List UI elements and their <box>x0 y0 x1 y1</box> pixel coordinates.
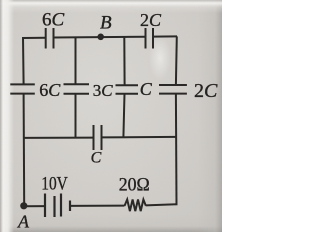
svg-text:6C: 6C <box>42 10 65 31</box>
wire top rail left segment <box>23 37 46 39</box>
node B <box>97 34 104 41</box>
capacitor 6C (left edge, vertical branch) <box>10 84 35 93</box>
wire left edge lower <box>23 94 26 207</box>
capacitor 3C <box>64 84 90 94</box>
svg-text:3C: 3C <box>93 81 114 100</box>
wire middle rail right <box>102 136 177 139</box>
svg-text:20Ω: 20Ω <box>119 175 150 196</box>
wire branch 2 lower <box>75 94 77 138</box>
svg-text:2C: 2C <box>140 10 162 30</box>
capacitor 6C (top rail) <box>46 28 54 49</box>
wire bottom rail middle <box>70 205 125 207</box>
wire middle rail left <box>23 137 94 139</box>
wire branch 3 upper <box>123 37 125 85</box>
capacitor C (third vertical branch) <box>116 85 139 94</box>
svg-text:C: C <box>140 79 153 99</box>
wire top rail middle segment <box>54 36 146 39</box>
svg-text:C: C <box>91 150 102 167</box>
resistor 20ohm zigzag <box>125 200 146 212</box>
capacitor 2C (top rail) <box>146 28 154 49</box>
wire bottom rail right <box>146 204 177 205</box>
capacitor 2C (right edge, vertical branch) <box>159 85 187 94</box>
svg-text:2C: 2C <box>194 80 218 102</box>
capacitor C (middle rail) <box>94 125 102 150</box>
node A <box>20 202 27 209</box>
wire left edge upper <box>22 37 25 85</box>
wire right edge upper <box>175 36 178 85</box>
wire right edge lower <box>175 94 178 206</box>
wire branch 2 upper <box>75 37 77 85</box>
svg-text:A: A <box>17 212 30 232</box>
wire top rail right segment <box>153 35 177 37</box>
svg-text:6C: 6C <box>39 80 61 100</box>
svg-text:10V: 10V <box>41 173 68 194</box>
svg-text:B: B <box>100 13 112 34</box>
battery 10V <box>45 194 70 218</box>
wire bottom rail left <box>24 205 45 207</box>
wire branch 3 lower <box>123 94 124 138</box>
